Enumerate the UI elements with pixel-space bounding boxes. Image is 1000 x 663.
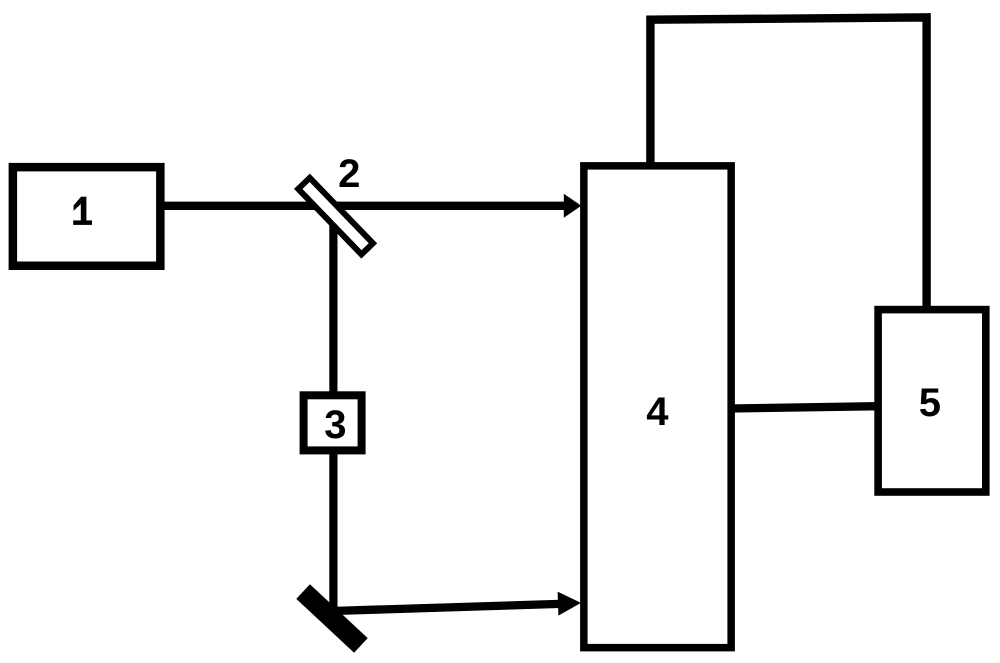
beam splitter 2 (tilted rectangle)	[298, 178, 373, 255]
label 1	[73, 197, 92, 225]
svg-text:2: 2	[338, 152, 360, 196]
box 3 (optical element)	[304, 395, 362, 450]
arrowhead into box 4 (upper beam)	[564, 194, 582, 218]
wire: box 4 to box 5 horizontal connector	[730, 406, 879, 408]
label 5	[919, 381, 941, 425]
label 2	[338, 152, 360, 196]
wire: feedback loop from box 4 top to box 5 top	[650, 17, 926, 309]
box 5 (processor)	[878, 310, 986, 492]
svg-text:3: 3	[324, 403, 346, 447]
box 1 (laser source)	[13, 167, 161, 266]
mirror (filled diagonal bar)	[296, 584, 367, 653]
svg-text:4: 4	[646, 390, 669, 434]
wire: beam line from box 1 to box 4	[161, 202, 567, 210]
label 3	[324, 403, 346, 447]
arrowhead into box 4 (lower beam)	[558, 592, 581, 616]
wire: vertical beam from splitter 2 down to mirror	[329, 214, 337, 616]
box 4 (detector)	[584, 166, 731, 648]
label 4	[646, 390, 669, 434]
svg-text:5: 5	[919, 381, 941, 425]
wire: bottom beam from mirror to box 4	[336, 604, 560, 611]
